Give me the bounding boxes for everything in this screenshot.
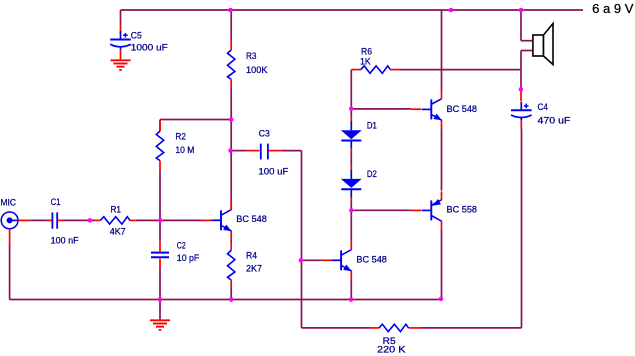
svg-text:R1: R1 [111, 205, 122, 216]
svg-text:BC 548: BC 548 [356, 255, 387, 266]
svg-text:1K: 1K [360, 56, 371, 67]
svg-text:D2: D2 [367, 169, 377, 180]
svg-text:2K7: 2K7 [246, 264, 262, 275]
svg-text:MIC: MIC [1, 198, 17, 209]
svg-text:C3: C3 [259, 129, 270, 140]
svg-text:BC 548: BC 548 [236, 214, 266, 225]
svg-text:D1: D1 [367, 120, 377, 131]
svg-text:10 pF: 10 pF [177, 253, 200, 264]
svg-text:470 uF: 470 uF [538, 116, 571, 127]
svg-text:220 K: 220 K [377, 345, 406, 356]
svg-text:100 uF: 100 uF [258, 167, 288, 178]
svg-text:6 a 9 V: 6 a 9 V [592, 2, 634, 16]
svg-text:BC 548: BC 548 [447, 104, 478, 115]
svg-text:C2: C2 [177, 241, 186, 252]
svg-text:R4: R4 [246, 251, 257, 262]
svg-text:R3: R3 [246, 51, 257, 62]
svg-text:C4: C4 [538, 102, 549, 113]
svg-text:BC 558: BC 558 [447, 204, 478, 215]
svg-text:C5: C5 [131, 30, 142, 41]
svg-text:100 nF: 100 nF [51, 236, 79, 247]
svg-text:C1: C1 [51, 197, 61, 208]
svg-text:1000 uF: 1000 uF [131, 43, 168, 54]
svg-text:R2: R2 [175, 131, 186, 142]
svg-text:100K: 100K [246, 65, 268, 76]
svg-text:10 M: 10 M [175, 145, 194, 156]
svg-text:4K7: 4K7 [110, 226, 126, 237]
